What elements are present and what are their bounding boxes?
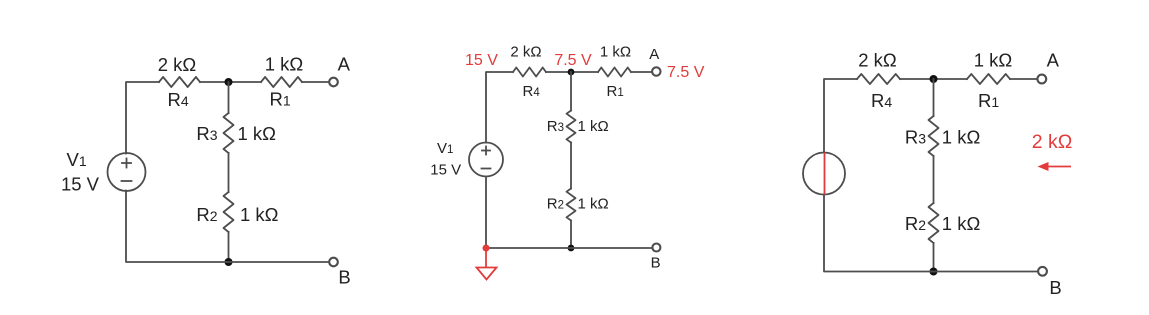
svg-text:A: A [1047,50,1060,71]
designator R4 [871,90,892,111]
svg-text:15 V: 15 V [61,174,100,195]
designator R1 [978,90,999,111]
annotation 7.5 V (red, terminal A voltage) [667,64,705,81]
resistor R2 [224,192,234,232]
resistor R1 [261,77,302,87]
svg-text:V1: V1 [67,149,87,170]
resistor R4 [159,77,200,87]
svg-text:2 kΩ: 2 kΩ [1032,131,1073,153]
wire top-left segment [486,72,513,143]
designator R2 [196,204,217,225]
wire bottom [486,177,652,249]
designator R3 [196,123,217,144]
resistor R3 [224,113,234,153]
svg-text:R4: R4 [168,89,189,110]
svg-text:A: A [649,46,659,63]
svg-text:1 kΩ: 1 kΩ [265,54,304,75]
svg-text:A: A [338,54,351,75]
svg-text:R1: R1 [270,89,291,110]
annotation 7.5 V (red, middle node voltage) [554,52,592,69]
value label 15 V [430,162,461,179]
svg-text:1 kΩ: 1 kΩ [974,50,1013,71]
node top junction [930,75,938,83]
value label 2 kΩ (R4) [858,50,897,71]
node label A [649,46,659,63]
wire R1 to terminal A [631,71,652,73]
value label 1 kΩ (R3) [942,127,981,148]
designator R3 [547,118,564,135]
svg-text:R4: R4 [523,83,541,100]
svg-text:R2: R2 [196,204,217,225]
annotation 15 V (red, node voltage) [465,52,498,69]
wire R4 to node [200,81,261,83]
value label 1 kΩ (R1) [265,54,304,75]
svg-text:1 kΩ: 1 kΩ [238,123,277,144]
terminal B [652,244,660,252]
svg-text:B: B [1049,277,1061,298]
svg-text:B: B [651,255,661,272]
resistor R1 [967,74,1010,84]
svg-text:2 kΩ: 2 kΩ [158,54,197,75]
value label 1 kΩ (R3) [238,123,277,144]
wire top-left segment [126,82,159,154]
resistor R1 [598,68,631,77]
node label A [1047,50,1060,71]
wire R1 to terminal A [302,81,329,83]
wire R3 to R2 [933,156,935,203]
node label A [338,54,351,75]
zeroed source (circle with short) [803,153,845,195]
value label 15 V [61,174,100,195]
value label 1 kΩ (R1) [974,50,1013,71]
svg-text:R4: R4 [871,90,892,111]
svg-text:7.5 V: 7.5 V [554,52,592,69]
designator R2 [547,196,564,213]
svg-text:1 kΩ: 1 kΩ [600,44,631,61]
svg-text:B: B [338,267,350,288]
resistor R3 [567,111,576,143]
node bottom junction [225,258,233,266]
svg-text:15 V: 15 V [430,162,461,179]
designator V1 [67,149,87,170]
wire R3 to R2 [570,143,572,189]
value label 1 kΩ (R1) [600,44,631,61]
wire bottom [824,195,1038,272]
svg-text:V1: V1 [437,140,453,157]
designator R4 [523,83,541,100]
designator V1 [437,140,453,157]
node label B [338,267,350,288]
svg-text:1 kΩ: 1 kΩ [942,213,981,234]
annotation arrow (red, looking into A-B) [1038,162,1072,171]
wire node to R3 [933,79,935,116]
resistor R2 [929,203,939,243]
svg-text:R1: R1 [978,90,999,111]
svg-text:1 kΩ: 1 kΩ [578,118,609,135]
svg-text:R2: R2 [905,213,926,234]
wire R1 to terminal A [1010,78,1037,80]
resistor R4 [857,74,900,84]
svg-text:R3: R3 [547,118,564,135]
svg-text:R2: R2 [547,196,564,213]
svg-text:R3: R3 [196,123,217,144]
svg-text:1 kΩ: 1 kΩ [578,196,609,213]
resistor R4 [513,68,546,77]
svg-text:1 kΩ: 1 kΩ [240,204,279,225]
wire R3 to R2 [228,153,230,192]
svg-text:R1: R1 [607,83,624,100]
designator R1 [607,83,624,100]
resistor R3 [929,116,939,156]
designator R4 [168,89,189,110]
designator R2 [905,213,926,234]
resistor R2 [567,189,576,221]
wire R2 to bottom node [933,243,935,272]
value label 1 kΩ (R2) [578,196,609,213]
terminal A [329,78,338,87]
wire node to R3 [228,82,230,113]
voltage source V1 [108,153,146,191]
annotation 2 kΩ (red, equivalent resistance) [1032,131,1073,153]
value label 1 kΩ (R3) [578,118,609,135]
node bottom junction [568,245,575,252]
node bottom junction [930,268,938,276]
voltage source V1 [469,143,503,177]
wire bottom [126,191,329,263]
designator R1 [270,89,291,110]
designator R3 [905,127,926,148]
svg-text:1 kΩ: 1 kΩ [942,127,981,148]
terminal B [1038,267,1047,276]
terminal A [1037,75,1046,84]
wire R2 to bottom node [228,232,230,262]
node label B [1049,277,1061,298]
value label 1 kΩ (R2) [942,213,981,234]
wire R4 to node [546,71,598,73]
terminal B [329,258,338,267]
value label 1 kΩ (R2) [240,204,279,225]
ground [477,248,497,280]
terminal A [652,67,660,75]
svg-text:15 V: 15 V [465,52,498,69]
wire R2 to bottom node [570,221,572,249]
svg-text:R3: R3 [905,127,926,148]
svg-text:2 kΩ: 2 kΩ [510,44,541,61]
node top junction [568,69,575,76]
value label 2 kΩ (R4) [158,54,197,75]
wire top-left segment [824,79,857,153]
wire R4 to node [900,78,967,80]
ground node (red dot) [483,245,490,252]
short through source (red wire) [824,153,826,195]
svg-text:2 kΩ: 2 kΩ [858,50,897,71]
node top junction [225,78,233,86]
svg-text:7.5 V: 7.5 V [667,64,705,81]
node label B [651,255,661,272]
wire node to R3 [570,72,572,111]
value label 2 kΩ (R4) [510,44,541,61]
